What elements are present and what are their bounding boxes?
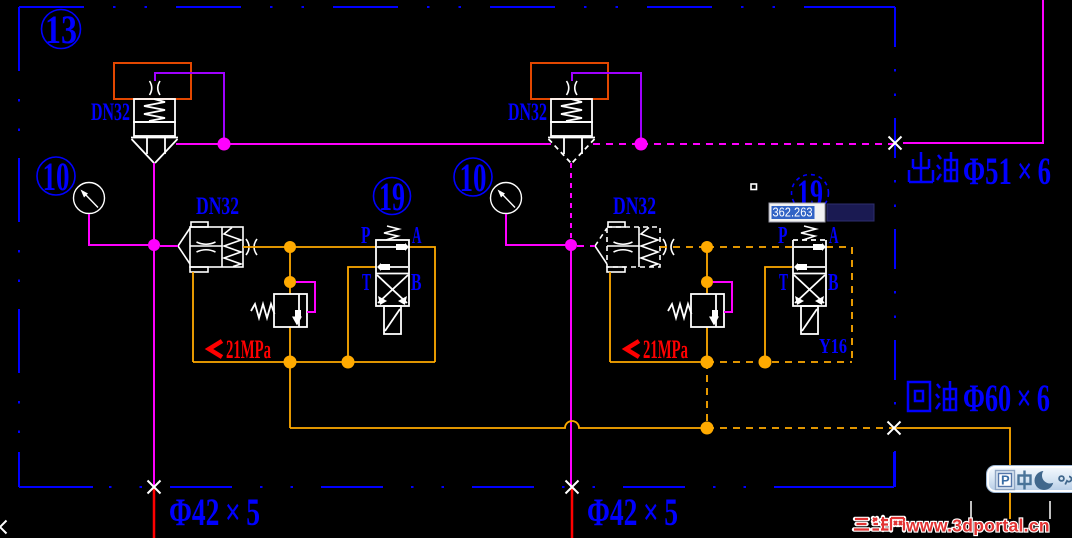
solenoid cover rect (right cartridge valve) (531, 63, 608, 99)
junction node circuit top (right) (701, 241, 713, 253)
selection grip square (751, 184, 757, 190)
outlet header dashed segment to border (641, 143, 895, 145)
balloon label 13 (42, 10, 81, 49)
svg-text:362.263: 362.263 (773, 206, 813, 220)
svg-text:21MPa: 21MPa (226, 335, 271, 364)
svg-text:B: B (828, 270, 839, 296)
orange pilot-oil circuit wires (right) (610, 247, 852, 362)
svg-text:DN32: DN32 (91, 99, 130, 126)
orange pilot-oil circuit wires (left) (193, 247, 435, 362)
balloon label 19 (left) (374, 178, 411, 215)
drawing border frame (blue dash-dot) (19, 7, 895, 487)
outlet stub from cartridge to node (left) (176, 143, 224, 145)
svg-text:T: T (362, 270, 371, 296)
svg-text:Y16: Y16 (819, 334, 847, 358)
break marker X (left feed) (148, 481, 161, 494)
svg-text:Φ42 × 5: Φ42 × 5 (587, 491, 678, 534)
relief valve (left) (251, 294, 307, 327)
svg-text:13: 13 (45, 7, 77, 52)
balloon label 10 (left) (37, 157, 75, 195)
svg-text:P: P (778, 223, 788, 249)
svg-text:21MPa: 21MPa (643, 335, 688, 364)
svg-text:Φ51 × 6: Φ51 × 6 (963, 150, 1051, 193)
junction node at outlet (left) (218, 138, 231, 151)
return line left subsystem drop (289, 362, 291, 428)
balloon label 19 (right, selected dashed) (792, 175, 829, 212)
check valve DN32 body (left) (178, 222, 257, 272)
return drop right subsystem (dashed) (706, 362, 708, 428)
junction node relief pilot (left) (284, 276, 296, 288)
svg-text:T: T (779, 270, 788, 296)
return pipe out (orange) (894, 428, 1010, 519)
feed pipe red (right) (571, 488, 574, 538)
break marker X (bottom left edge, clipped) (0, 521, 7, 534)
IME icon P (996, 471, 1015, 490)
svg-text:DN32: DN32 (196, 193, 239, 220)
IME icon partial (clipped) (1059, 476, 1064, 481)
svg-text:P: P (361, 223, 371, 249)
tick mark white (right) (1049, 501, 1051, 519)
svg-text:DN32: DN32 (613, 193, 656, 220)
break marker X (return) (888, 422, 901, 435)
relief valve pilot line (magenta, right) (713, 282, 732, 312)
junction node relief pilot (right) (701, 276, 713, 288)
pilot line (purple) from orifice to outlet node (right) (572, 73, 641, 140)
directional valve spring (right) (801, 226, 816, 240)
setting label <21MPa (right) (626, 341, 639, 357)
gauge wire (right) (506, 214, 567, 245)
tick mark white (left) (970, 501, 972, 519)
outlet stub from cartridge to node (right) (593, 143, 641, 145)
junction node bottom 1 (right) (701, 356, 714, 369)
solenoid cover rect (left cartridge valve) (114, 63, 191, 99)
gauge wire (left) (89, 214, 150, 245)
magenta stub into check valve (right) (577, 245, 595, 247)
IME language bar (986, 465, 1072, 493)
svg-text:Φ42 × 5: Φ42 × 5 (169, 491, 260, 534)
svg-text:10: 10 (43, 154, 70, 199)
junction node supply/gauge (right) (565, 239, 577, 251)
orifice symbol )( (right) (567, 81, 569, 95)
dynamic input box 2 (empty, navy) (827, 204, 874, 221)
junction node circuit top (left) (284, 241, 296, 253)
directional valve body (right) (793, 240, 826, 334)
relief valve pilot line (magenta, left) (296, 282, 315, 312)
pressure gauge (right) (491, 183, 522, 214)
outlet header line (magenta) joining both cartridge valves (224, 143, 551, 145)
svg-text:A: A (829, 223, 839, 249)
annotation text 回油Φ60×6 (908, 377, 1050, 420)
border corner solid segments (19, 7, 895, 487)
balloon label 10 (right) (454, 158, 492, 196)
break marker X (right feed) (566, 481, 579, 494)
directional valve body (left) (376, 240, 409, 334)
svg-text:DN32: DN32 (508, 99, 547, 126)
dynamic input box 362.263 (769, 203, 825, 222)
cartridge valve DN32 body (left) (131, 99, 178, 163)
junction node supply/gauge (left) (148, 239, 160, 251)
magenta stub into check valve (left) (160, 245, 178, 247)
junction node bottom 1 (left) (284, 356, 297, 369)
outlet pipe from top right corner (magenta) (903, 0, 1043, 143)
svg-text:A: A (412, 223, 422, 249)
setting label <21MPa (left) (209, 341, 222, 357)
annotation text 出油Φ51×6 (909, 150, 1051, 193)
return node (701, 422, 714, 435)
svg-text:19: 19 (379, 174, 405, 219)
directional valve spring (left) (384, 226, 399, 240)
supply line vertical (magenta, left) (153, 163, 155, 487)
feed pipe red (left) (153, 488, 156, 538)
svg-text:P: P (1001, 473, 1010, 488)
break marker X (outlet) (889, 137, 902, 150)
junction node at outlet (right) (635, 138, 648, 151)
pressure gauge (left) (74, 183, 105, 214)
check valve DN32 body (right) (595, 222, 674, 272)
IME icon 中 (1019, 471, 1031, 490)
relief valve (right) (668, 294, 724, 327)
watermark 三维网www.3dportal.cn (854, 516, 1050, 536)
return header dashed to border (707, 427, 894, 429)
supply line vertical (magenta, right) (570, 163, 572, 245)
pilot line (purple) from orifice to outlet node (left) (155, 73, 224, 140)
return header with crossover hop (290, 421, 707, 428)
svg-text:www.3dportal.cn: www.3dportal.cn (905, 516, 1050, 536)
orifice symbol )( (left) (150, 81, 152, 95)
svg-text:B: B (411, 270, 422, 296)
cartridge valve DN32 body (right) (548, 99, 595, 163)
svg-text:10: 10 (460, 155, 487, 200)
junction node bottom 2 (right) (759, 356, 772, 369)
junction node bottom 2 (left) (342, 356, 355, 369)
svg-text:Φ60 × 6: Φ60 × 6 (963, 377, 1050, 420)
